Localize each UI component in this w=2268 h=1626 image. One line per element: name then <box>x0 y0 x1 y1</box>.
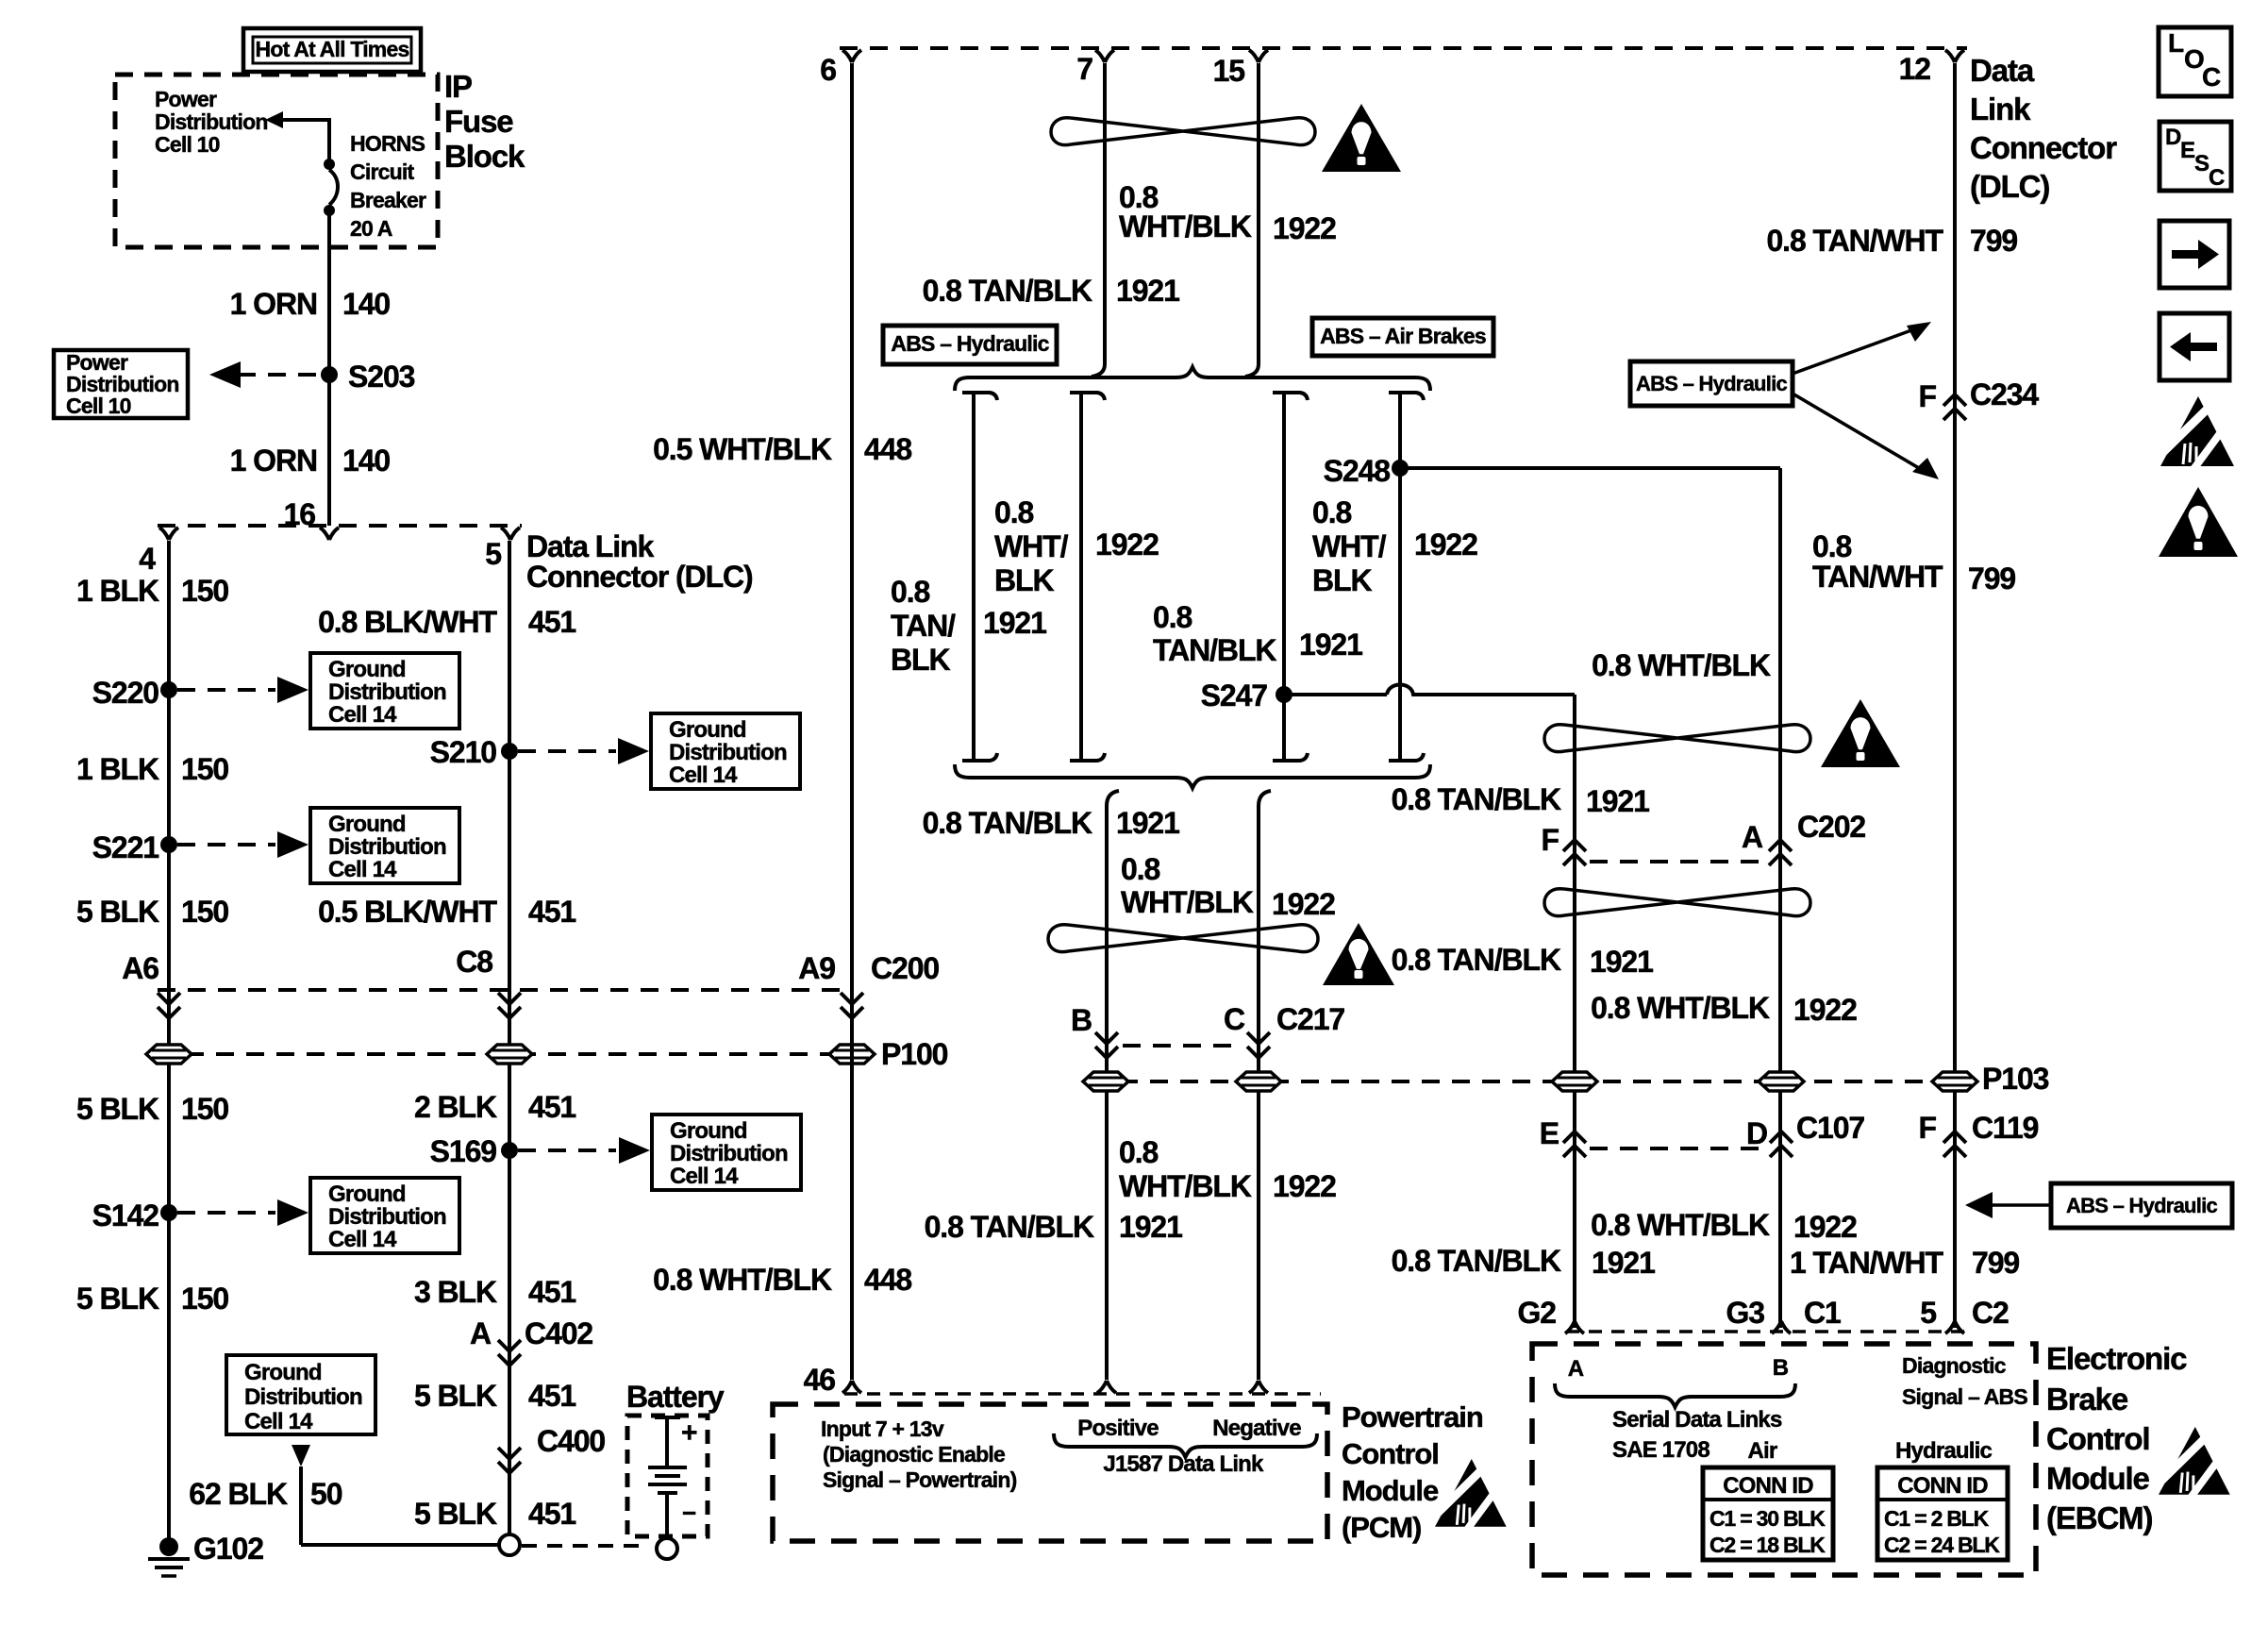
svg-text:799: 799 <box>1968 562 2015 595</box>
svg-text:A9: A9 <box>798 951 835 985</box>
svg-text:0.8 WHT/BLK: 0.8 WHT/BLK <box>653 1263 832 1297</box>
svg-text:+: + <box>681 1417 697 1449</box>
svg-text:Distribution: Distribution <box>670 1141 788 1166</box>
svg-text:WHT/BLK: WHT/BLK <box>1119 210 1252 243</box>
svg-text:F: F <box>1919 1111 1937 1145</box>
svg-text:SAE 1708: SAE 1708 <box>1612 1437 1709 1463</box>
svg-text:0.8 TAN/BLK: 0.8 TAN/BLK <box>923 806 1092 840</box>
svg-text:BLK: BLK <box>891 643 950 677</box>
svg-text:46: 46 <box>804 1363 836 1397</box>
svg-text:451: 451 <box>528 605 575 639</box>
svg-text:C: C <box>1224 1002 1245 1036</box>
svg-text:Signal – Powertrain): Signal – Powertrain) <box>823 1467 1017 1492</box>
svg-text:HORNS: HORNS <box>350 131 425 156</box>
svg-text:1 BLK: 1 BLK <box>76 752 159 786</box>
svg-text:5 BLK: 5 BLK <box>76 1282 159 1316</box>
svg-text:0.8 TAN/WHT: 0.8 TAN/WHT <box>1766 224 1943 258</box>
svg-text:Cell 14: Cell 14 <box>328 857 397 882</box>
svg-text:B: B <box>1773 1355 1789 1381</box>
svg-text:451: 451 <box>528 1090 575 1124</box>
svg-text:WHT/BLK: WHT/BLK <box>1119 1169 1252 1203</box>
svg-text:20 A: 20 A <box>350 216 392 241</box>
svg-text:1921: 1921 <box>1116 806 1179 840</box>
svg-text:Ground: Ground <box>244 1360 322 1385</box>
svg-text:0.8 TAN/BLK: 0.8 TAN/BLK <box>923 274 1092 308</box>
svg-text:E: E <box>1540 1116 1559 1150</box>
svg-text:1921: 1921 <box>1586 784 1649 818</box>
svg-text:150: 150 <box>181 1092 228 1126</box>
svg-text:WHT/: WHT/ <box>1312 529 1387 563</box>
svg-text:451: 451 <box>528 1379 575 1413</box>
svg-text:F: F <box>1542 823 1559 857</box>
svg-text:C8: C8 <box>456 945 492 979</box>
svg-text:Cell 14: Cell 14 <box>669 763 738 788</box>
svg-text:Input 7 + 13v: Input 7 + 13v <box>821 1416 944 1441</box>
svg-text:Cell 14: Cell 14 <box>328 702 397 728</box>
svg-text:6: 6 <box>820 53 836 87</box>
svg-text:1922: 1922 <box>1793 1210 1857 1244</box>
svg-text:Electronic: Electronic <box>2046 1341 2187 1376</box>
svg-text:0.5 WHT/BLK: 0.5 WHT/BLK <box>653 432 832 466</box>
svg-text:Serial Data Links: Serial Data Links <box>1612 1407 1782 1433</box>
svg-text:C2: C2 <box>1972 1296 2009 1330</box>
svg-text:Connector (DLC): Connector (DLC) <box>526 560 753 594</box>
svg-text:E: E <box>2180 138 2195 163</box>
svg-text:3 BLK: 3 BLK <box>414 1275 497 1309</box>
svg-text:Ground: Ground <box>669 717 746 743</box>
svg-text:Power: Power <box>155 87 217 111</box>
svg-text:Distribution: Distribution <box>669 740 787 765</box>
svg-text:150: 150 <box>181 574 228 608</box>
svg-text:P100: P100 <box>881 1037 948 1071</box>
svg-text:1922: 1922 <box>1273 1169 1336 1203</box>
svg-text:0.8: 0.8 <box>1812 529 1852 563</box>
svg-text:Control: Control <box>2046 1421 2149 1456</box>
svg-text:P103: P103 <box>1982 1062 2049 1096</box>
svg-text:0.8: 0.8 <box>1312 495 1352 529</box>
svg-text:0.8 BLK/WHT: 0.8 BLK/WHT <box>318 605 497 639</box>
svg-text:5: 5 <box>485 537 501 571</box>
svg-text:−: − <box>682 1499 696 1527</box>
svg-text:150: 150 <box>181 1282 228 1316</box>
svg-text:5: 5 <box>1920 1296 1936 1330</box>
svg-text:G2: G2 <box>1517 1296 1556 1330</box>
svg-text:A: A <box>1568 1356 1584 1382</box>
svg-text:Connector: Connector <box>1970 130 2117 165</box>
svg-text:50: 50 <box>310 1477 342 1511</box>
svg-text:Distribution: Distribution <box>328 1204 446 1230</box>
svg-text:BLK: BLK <box>1312 563 1372 597</box>
svg-text:0.8: 0.8 <box>1153 600 1192 634</box>
svg-text:Ground: Ground <box>328 657 406 682</box>
svg-text:A: A <box>470 1316 492 1350</box>
svg-text:Cell 10: Cell 10 <box>66 394 131 418</box>
svg-text:0.8: 0.8 <box>891 575 930 609</box>
svg-text:TAN/WHT: TAN/WHT <box>1812 560 1943 594</box>
svg-text:140: 140 <box>342 287 390 321</box>
svg-text:451: 451 <box>528 1497 575 1531</box>
svg-text:0.8: 0.8 <box>1121 852 1160 886</box>
svg-text:5 BLK: 5 BLK <box>414 1497 497 1531</box>
svg-text:1921: 1921 <box>1592 1246 1655 1280</box>
svg-text:451: 451 <box>528 1275 575 1309</box>
svg-text:Block: Block <box>444 139 525 174</box>
svg-text:C1 = 30 BLK: C1 = 30 BLK <box>1709 1506 1826 1531</box>
svg-text:S221: S221 <box>92 830 159 864</box>
svg-text:Ground: Ground <box>328 812 406 837</box>
svg-text:15: 15 <box>1213 54 1245 88</box>
svg-text:C1 = 2 BLK: C1 = 2 BLK <box>1884 1506 1990 1531</box>
svg-text:Negative: Negative <box>1212 1416 1301 1441</box>
svg-text:L: L <box>2168 28 2184 58</box>
svg-text:Cell 14: Cell 14 <box>244 1409 313 1434</box>
svg-text:0.8: 0.8 <box>994 495 1034 529</box>
svg-text:1921: 1921 <box>1299 628 1362 662</box>
svg-text:TAN/: TAN/ <box>891 609 956 643</box>
svg-text:C107: C107 <box>1796 1111 1864 1145</box>
svg-text:Breaker: Breaker <box>350 188 426 212</box>
svg-text:C202: C202 <box>1797 810 1865 844</box>
svg-text:Brake: Brake <box>2046 1382 2128 1416</box>
svg-text:Distribution: Distribution <box>155 109 268 134</box>
svg-text:1921: 1921 <box>1116 274 1179 308</box>
svg-text:C: C <box>2202 62 2221 92</box>
svg-text:0.8: 0.8 <box>1119 1135 1159 1169</box>
svg-text:(DLC): (DLC) <box>1970 169 2049 204</box>
svg-text:BLK: BLK <box>994 563 1054 597</box>
svg-text:140: 140 <box>342 444 390 478</box>
svg-text:Signal – ABS: Signal – ABS <box>1902 1384 2027 1409</box>
svg-text:1921: 1921 <box>1590 945 1653 979</box>
svg-text:A6: A6 <box>122 951 158 985</box>
svg-text:B: B <box>1071 1003 1092 1037</box>
svg-text:0.8 TAN/BLK: 0.8 TAN/BLK <box>925 1210 1094 1244</box>
svg-text:Cell 14: Cell 14 <box>328 1227 397 1252</box>
svg-text:S169: S169 <box>430 1134 497 1168</box>
svg-text:A: A <box>1742 820 1763 854</box>
svg-text:C: C <box>2209 165 2225 191</box>
svg-text:(PCM): (PCM) <box>1342 1511 1421 1544</box>
svg-text:Cell 14: Cell 14 <box>670 1164 739 1189</box>
svg-text:Circuit: Circuit <box>350 159 415 184</box>
svg-text:Diagnostic: Diagnostic <box>1902 1353 2007 1378</box>
svg-text:C119: C119 <box>1972 1111 2039 1145</box>
svg-text:0.8 TAN/BLK: 0.8 TAN/BLK <box>1392 943 1561 977</box>
svg-text:Control: Control <box>1342 1437 1439 1470</box>
svg-text:Distribution: Distribution <box>244 1384 362 1410</box>
svg-text:S220: S220 <box>92 676 159 710</box>
svg-text:S203: S203 <box>348 360 415 394</box>
svg-text:Data: Data <box>1970 53 2035 88</box>
svg-text:448: 448 <box>864 1263 911 1297</box>
svg-text:WHT/: WHT/ <box>994 529 1069 563</box>
svg-text:S248: S248 <box>1324 454 1391 488</box>
svg-text:O: O <box>2184 44 2204 74</box>
svg-text:1921: 1921 <box>1119 1210 1182 1244</box>
svg-text:1922: 1922 <box>1273 211 1336 245</box>
svg-text:Distribution: Distribution <box>328 834 446 860</box>
svg-text:ABS – Hydraulic: ABS – Hydraulic <box>1636 372 1787 395</box>
svg-text:0.8 WHT/BLK: 0.8 WHT/BLK <box>1591 991 1770 1025</box>
svg-text:CONN ID: CONN ID <box>1723 1473 1813 1499</box>
svg-text:1921: 1921 <box>983 606 1046 640</box>
svg-text:7: 7 <box>1076 52 1092 86</box>
svg-text:WHT/BLK: WHT/BLK <box>1121 885 1254 919</box>
svg-text:0.5 BLK/WHT: 0.5 BLK/WHT <box>318 895 497 929</box>
svg-text:S142: S142 <box>92 1199 159 1232</box>
svg-text:Hydraulic: Hydraulic <box>1895 1438 1992 1464</box>
svg-text:451: 451 <box>528 895 575 929</box>
svg-text:Hot At All Times: Hot At All Times <box>255 37 409 61</box>
svg-text:Module: Module <box>1342 1474 1439 1507</box>
svg-text:0.8 TAN/BLK: 0.8 TAN/BLK <box>1392 1244 1561 1278</box>
svg-text:1922: 1922 <box>1793 993 1857 1027</box>
svg-text:TAN/BLK: TAN/BLK <box>1153 633 1276 667</box>
svg-text:S210: S210 <box>430 735 497 769</box>
svg-text:(EBCM): (EBCM) <box>2046 1500 2153 1535</box>
svg-text:G102: G102 <box>193 1532 263 1566</box>
svg-text:5 BLK: 5 BLK <box>414 1379 497 1413</box>
svg-text:J1587 Data Link: J1587 Data Link <box>1103 1451 1264 1477</box>
svg-text:Powertrain: Powertrain <box>1342 1400 1483 1433</box>
svg-text:1922: 1922 <box>1414 528 1477 562</box>
svg-text:C234: C234 <box>1970 377 2039 411</box>
svg-text:S247: S247 <box>1201 679 1268 712</box>
svg-text:799: 799 <box>1972 1246 2019 1280</box>
svg-text:Module: Module <box>2046 1461 2150 1496</box>
svg-text:Fuse: Fuse <box>444 104 513 139</box>
svg-text:1 BLK: 1 BLK <box>76 574 159 608</box>
svg-text:150: 150 <box>181 895 228 929</box>
svg-text:Positive: Positive <box>1077 1416 1159 1441</box>
svg-text:CONN ID: CONN ID <box>1897 1473 1988 1499</box>
svg-text:0.8 TAN/BLK: 0.8 TAN/BLK <box>1392 782 1561 816</box>
svg-text:Ground: Ground <box>328 1182 406 1207</box>
svg-text:1 ORN: 1 ORN <box>230 444 317 478</box>
svg-text:C402: C402 <box>525 1316 592 1350</box>
svg-text:1922: 1922 <box>1272 887 1335 921</box>
svg-text:C200: C200 <box>871 951 939 985</box>
svg-text:1 TAN/WHT: 1 TAN/WHT <box>1790 1246 1944 1280</box>
svg-text:0.8 WHT/BLK: 0.8 WHT/BLK <box>1591 1208 1770 1242</box>
svg-text:5 BLK: 5 BLK <box>76 895 159 929</box>
svg-text:1922: 1922 <box>1095 528 1159 562</box>
svg-text:C2 = 24 BLK: C2 = 24 BLK <box>1884 1533 2000 1557</box>
svg-text:5 BLK: 5 BLK <box>76 1092 159 1126</box>
svg-text:Cell 10: Cell 10 <box>155 132 220 157</box>
svg-text:ABS – Air Brakes: ABS – Air Brakes <box>1320 324 1486 348</box>
svg-text:799: 799 <box>1970 224 2017 258</box>
svg-text:Data Link: Data Link <box>526 529 655 563</box>
svg-text:C1: C1 <box>1804 1296 1841 1330</box>
svg-text:ABS – Hydraulic: ABS – Hydraulic <box>891 331 1049 356</box>
svg-text:C217: C217 <box>1276 1002 1344 1036</box>
svg-text:S: S <box>2194 151 2210 176</box>
svg-text:ABS – Hydraulic: ABS – Hydraulic <box>2066 1194 2217 1217</box>
svg-text:4: 4 <box>139 542 156 576</box>
svg-text:C400: C400 <box>537 1424 605 1458</box>
svg-text:G3: G3 <box>1726 1296 1764 1330</box>
svg-text:F: F <box>1919 379 1937 413</box>
svg-text:62 BLK: 62 BLK <box>189 1477 288 1511</box>
svg-text:Battery: Battery <box>626 1380 725 1414</box>
svg-text:IP: IP <box>444 69 472 104</box>
svg-text:1 ORN: 1 ORN <box>230 287 317 321</box>
svg-text:Link: Link <box>1970 92 2031 126</box>
svg-text:(Diagnostic Enable: (Diagnostic Enable <box>823 1442 1005 1467</box>
svg-text:12: 12 <box>1899 52 1931 86</box>
svg-text:D: D <box>1746 1116 1767 1150</box>
svg-text:Distribution: Distribution <box>328 679 446 705</box>
svg-text:Air: Air <box>1748 1438 1777 1464</box>
svg-text:D: D <box>2165 125 2181 150</box>
svg-text:448: 448 <box>864 432 911 466</box>
svg-text:C2 = 18 BLK: C2 = 18 BLK <box>1709 1533 1826 1557</box>
svg-text:2 BLK: 2 BLK <box>414 1090 497 1124</box>
svg-text:Ground: Ground <box>670 1118 747 1144</box>
svg-text:150: 150 <box>181 752 228 786</box>
svg-text:0.8 WHT/BLK: 0.8 WHT/BLK <box>1592 648 1771 682</box>
